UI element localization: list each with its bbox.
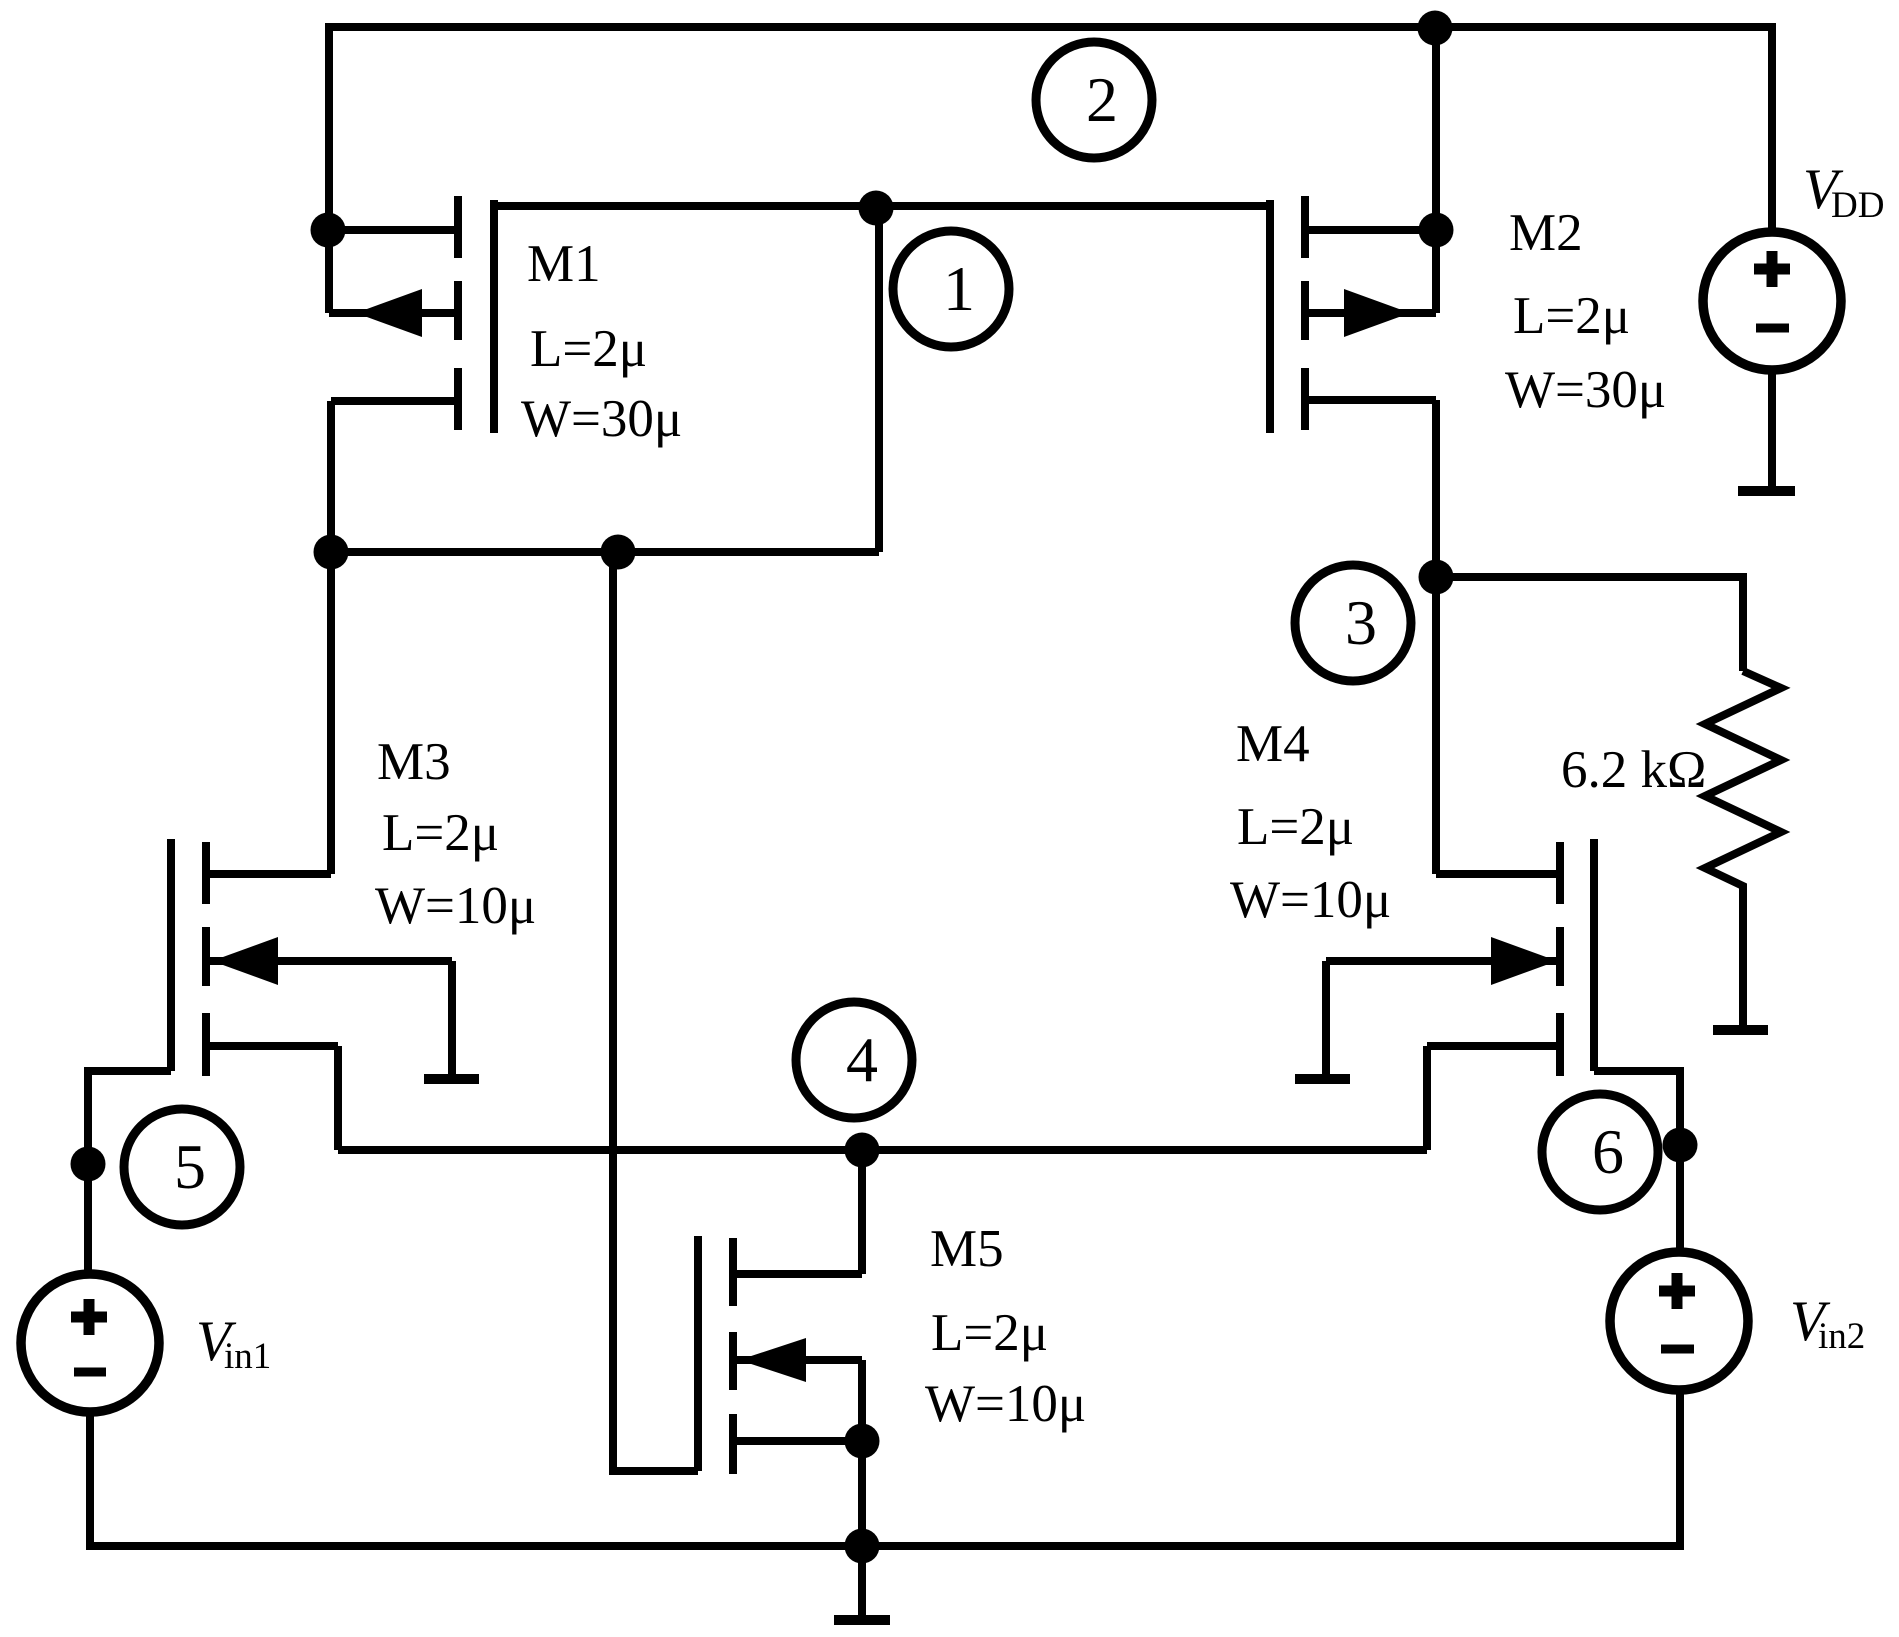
svg-text:in1: in1 [224,1336,271,1377]
svg-text:M1: M1 [527,235,601,293]
svg-text:W=30μ: W=30μ [1505,361,1666,419]
svg-text:M5: M5 [930,1220,1004,1278]
svg-text:5: 5 [174,1131,206,1202]
svg-text:M4: M4 [1236,715,1310,773]
svg-text:in2: in2 [1818,1316,1865,1357]
svg-text:M2: M2 [1509,204,1583,262]
svg-text:W=10μ: W=10μ [375,877,536,935]
svg-text:3: 3 [1345,587,1377,658]
svg-text:6.2 kΩ: 6.2 kΩ [1561,741,1706,799]
svg-text:W=30μ: W=30μ [521,390,682,448]
svg-text:W=10μ: W=10μ [1230,871,1391,929]
svg-text:L=2μ: L=2μ [382,804,499,862]
svg-text:L=2μ: L=2μ [1513,287,1630,345]
svg-text:1: 1 [943,253,975,324]
svg-text:L=2μ: L=2μ [1237,798,1354,856]
svg-text:6: 6 [1592,1116,1624,1187]
svg-text:4: 4 [846,1024,878,1095]
svg-text:L=2μ: L=2μ [530,320,647,378]
svg-text:2: 2 [1086,64,1118,135]
svg-text:W=10μ: W=10μ [925,1375,1086,1433]
svg-text:M3: M3 [377,733,451,791]
svg-text:L=2μ: L=2μ [931,1304,1048,1362]
svg-text:DD: DD [1831,185,1884,226]
